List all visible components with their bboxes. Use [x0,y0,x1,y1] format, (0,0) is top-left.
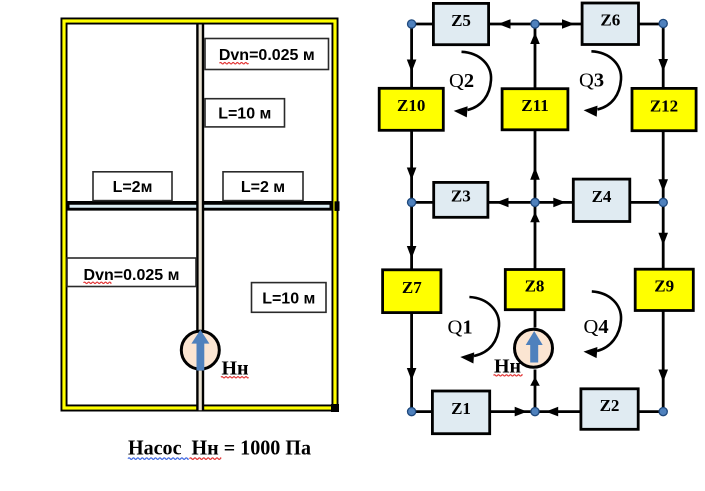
wire Z2 to node9 [638,410,663,413]
pump circle Hн (circuit) [515,329,553,367]
svg-text:Z9: Z9 [654,277,674,296]
svg-text:L=2 м: L=2 м [241,179,285,196]
flow arrow down into Z10 [407,60,417,73]
loop arrow Q4 arc [584,291,622,358]
svg-text:Z3: Z3 [451,187,471,206]
impedance Z4 [573,179,630,221]
flow arrow up into node5 [530,212,540,223]
svg-text:Q4: Q4 [584,316,609,338]
pump circle Hн (left schematic) [181,330,219,371]
frame corner block [331,404,339,412]
loop arrow Q1 arc [460,297,499,364]
svg-text:Насос Hн = 1000 Па: Насос Hн = 1000 Па [128,436,311,460]
svg-text:Z12: Z12 [650,96,678,115]
node 4 (mid-left) [408,198,416,206]
impedance Z2 [581,389,638,430]
wire Z5 to node2 [489,23,535,26]
wire Z8 up to node5 [534,202,537,269]
wire Z7 to node7 [410,313,413,412]
impedance Z10 [379,88,443,130]
node 2 (top-center) [531,20,539,28]
spellcheck squiggle under Dvn [220,63,249,64]
node 3 (top-right) [659,19,667,27]
flow arrow toward Z4 [553,198,566,208]
label Dvn=0.025 top [205,39,329,70]
svg-text:Hн: Hн [494,356,521,378]
impedance Z11 [502,89,568,130]
node 1 (top-left) [408,20,416,28]
wire node8 up to pump [534,370,537,412]
label L=2 left [93,172,172,201]
impedance Z9 [635,269,693,310]
impedance Z6 [582,3,638,45]
label Hн (left) [221,358,249,380]
wire Z10 to node4 [410,130,413,202]
flow arrow up into pump [530,377,540,386]
impedance Z3 [434,182,488,217]
flow arrow down to node7 [407,368,417,381]
svg-text:L=2м: L=2м [113,179,153,196]
flow arrow down to node9 [658,370,668,383]
wire Z9 to node9 [662,311,665,412]
wire node5 up to Z11 [534,130,537,203]
node 9 (bottom-right) [659,408,667,416]
pipe loop frame [64,21,335,408]
equivalent impedance circuit [379,3,696,434]
wire node1 down to Z10 [410,24,413,88]
wire node2 to Z6 [535,23,582,26]
flow arrow down into Z7 [407,246,417,259]
svg-text:Q1: Q1 [448,317,473,339]
svg-text:Z4: Z4 [592,187,612,206]
label Hн (circuit) [494,356,523,378]
wire Z11 up to node2 [534,24,537,89]
svg-text:Z11: Z11 [521,96,548,115]
wire node7 to Z1 [412,410,433,413]
wire node6 down to Z9 [662,202,665,269]
svg-text:Z7: Z7 [402,278,422,297]
svg-text:L=10 м: L=10 м [218,106,271,123]
svg-text:Z2: Z2 [600,396,620,415]
svg-text:Z5: Z5 [451,11,471,30]
flow arrow toward Z5 [498,19,511,29]
flow arrow down into Z12 [658,59,668,72]
svg-text:Z8: Z8 [525,276,545,295]
wire Z6 to node3 [639,23,664,26]
flow arrow from Z1 into node8 [515,407,528,417]
loop arrow Q3 arc [584,51,621,116]
left pipe-network schematic [64,21,340,460]
svg-text:Z10: Z10 [397,96,425,115]
label L=10 lower [252,283,327,313]
wire Z12 to node6 [662,131,665,203]
impedance Z8 [505,270,564,310]
flow arrow up into Z11 [530,167,540,180]
spellcheck squiggle under lower Dvn [84,282,112,283]
loop arrow Q2 arc [454,52,491,118]
svg-text:Q2: Q2 [449,70,474,92]
node 8 (bottom-center) [531,408,539,416]
impedance Z5 [433,3,488,44]
flow arrow up into node2 [530,33,540,45]
svg-text:Z6: Z6 [600,11,620,30]
svg-text:Z1: Z1 [451,399,471,418]
flow arrow down into Z9 [658,233,668,246]
wire node4 to Z3 [412,201,434,204]
wire Z8 to pump [534,310,537,328]
svg-text:Q3: Q3 [579,70,604,92]
node 5 (mid-center) [531,198,539,206]
divider stub through right frame [335,201,340,211]
wire node1 to Z5 [412,23,434,26]
wire Z4 to node6 [630,201,663,204]
svg-text:Dvn=0.025 м: Dvn=0.025 м [84,267,180,284]
caption Насос Hн = 1000 Па [128,436,311,460]
flow arrow down to node4 [407,168,417,181]
impedance Z1 [432,391,489,434]
impedance Z12 [632,88,696,130]
flow arrow down to node6 [658,179,668,192]
node 7 (bottom-left) [408,408,416,416]
wire node4 down to Z7 [410,202,413,269]
label L=2 right [223,172,303,201]
svg-text:Dvn=0.025 м: Dvn=0.025 м [219,47,315,64]
label L=10 upper [205,99,285,127]
wire Z1 to node8 [490,410,535,413]
flow arrow toward Z6 [562,19,575,29]
svg-text:L=10 м: L=10 м [262,290,315,307]
impedance Z7 [383,270,441,313]
wire node5 to Z4 [535,201,573,204]
vertical pipe divider [196,25,204,411]
node 6 (mid-right) [659,198,667,206]
horizontal pipe divider [68,201,332,211]
wire Z3 to node5 [488,201,535,204]
wire node8 to Z2 [535,410,581,413]
flow arrow from Z2 into node8 [546,407,559,417]
flow arrow toward Z3 [496,198,509,208]
label Dvn=0.025 lower [67,258,196,287]
wire node3 down to Z12 [662,24,665,88]
